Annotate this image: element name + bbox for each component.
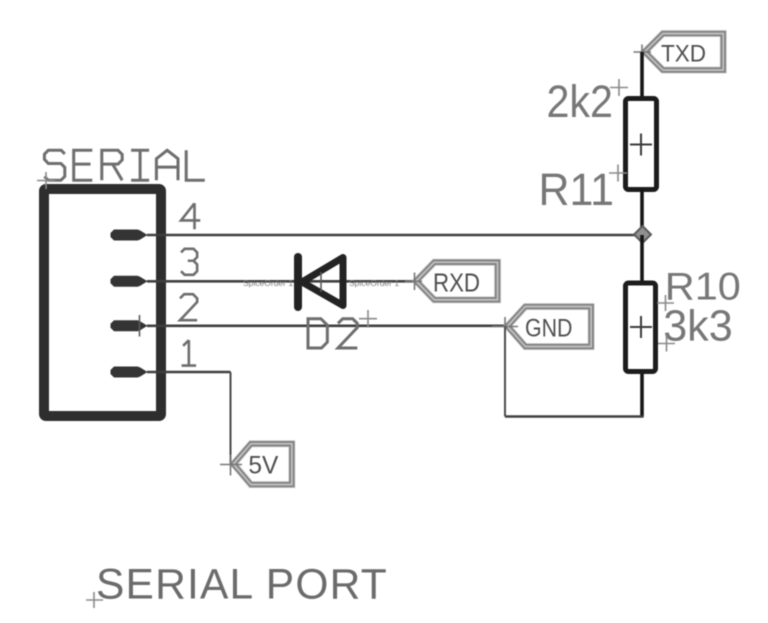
svg-text:R11: R11 [539, 164, 615, 215]
pin 4 [111, 230, 148, 241]
wire GND down [504, 327, 506, 417]
flag 5V [220, 442, 294, 486]
svg-text:SpiceOrder 1: SpiceOrder 1 [243, 278, 293, 288]
flag TXD [634, 32, 726, 72]
wire bottom horizontal [505, 415, 644, 418]
diode D2 triangle [302, 258, 343, 306]
wire pin1 net vertical to 5V [230, 372, 232, 464]
wire R10 to bottom [640, 374, 644, 417]
connector SERIAL body [44, 189, 161, 416]
wire R11 to junction [640, 189, 644, 235]
svg-text:SERIAL PORT: SERIAL PORT [96, 562, 388, 609]
label SERIAL (vector font) [44, 150, 204, 180]
svg-text:2k2: 2k2 [547, 76, 614, 127]
diode D2 origin tick [320, 272, 322, 292]
pin 3 [111, 276, 148, 287]
origin cross of 2k2 [610, 79, 628, 96]
svg-text:TXD: TXD [661, 40, 706, 67]
svg-text:RXD: RXD [433, 268, 480, 298]
svg-text:GND: GND [525, 315, 573, 343]
wire pin1 net horizontal [147, 371, 231, 374]
svg-text:SpiceOrder 1: SpiceOrder 1 [349, 278, 399, 288]
origin cross of R11 [609, 165, 627, 182]
resistor R11 body [626, 99, 657, 190]
flag RXD [405, 261, 499, 302]
svg-text:5V: 5V [248, 451, 278, 479]
wire TXD to R11 [640, 52, 644, 96]
wire pin3 net [147, 280, 413, 283]
resistor R10 center cross [630, 316, 652, 338]
wire pin4 net [147, 234, 642, 237]
origin cross of SERIAL connector [37, 172, 55, 189]
origin cross of R10 [657, 295, 674, 311]
pin 2 origin cross [139, 315, 141, 337]
pin number 2 [180, 294, 197, 320]
origin cross of caption [86, 592, 103, 608]
pin 1 [111, 367, 148, 378]
junction node [634, 226, 651, 243]
flag GND [492, 305, 593, 349]
origin cross of D2 [359, 310, 377, 328]
resistor R10 body [626, 283, 656, 372]
pin number 1 [182, 340, 197, 365]
pin number 3 [181, 249, 197, 275]
resistor R11 center cross [630, 134, 652, 156]
wire junction to R10 [640, 235, 644, 281]
pin 2 [111, 320, 148, 331]
wire pin2 net [147, 324, 505, 327]
label D2 (vector font) [308, 319, 357, 348]
diode D2 cathode bar [294, 257, 302, 307]
origin cross of 3k3 [658, 336, 675, 352]
pin number 4 [181, 203, 200, 229]
